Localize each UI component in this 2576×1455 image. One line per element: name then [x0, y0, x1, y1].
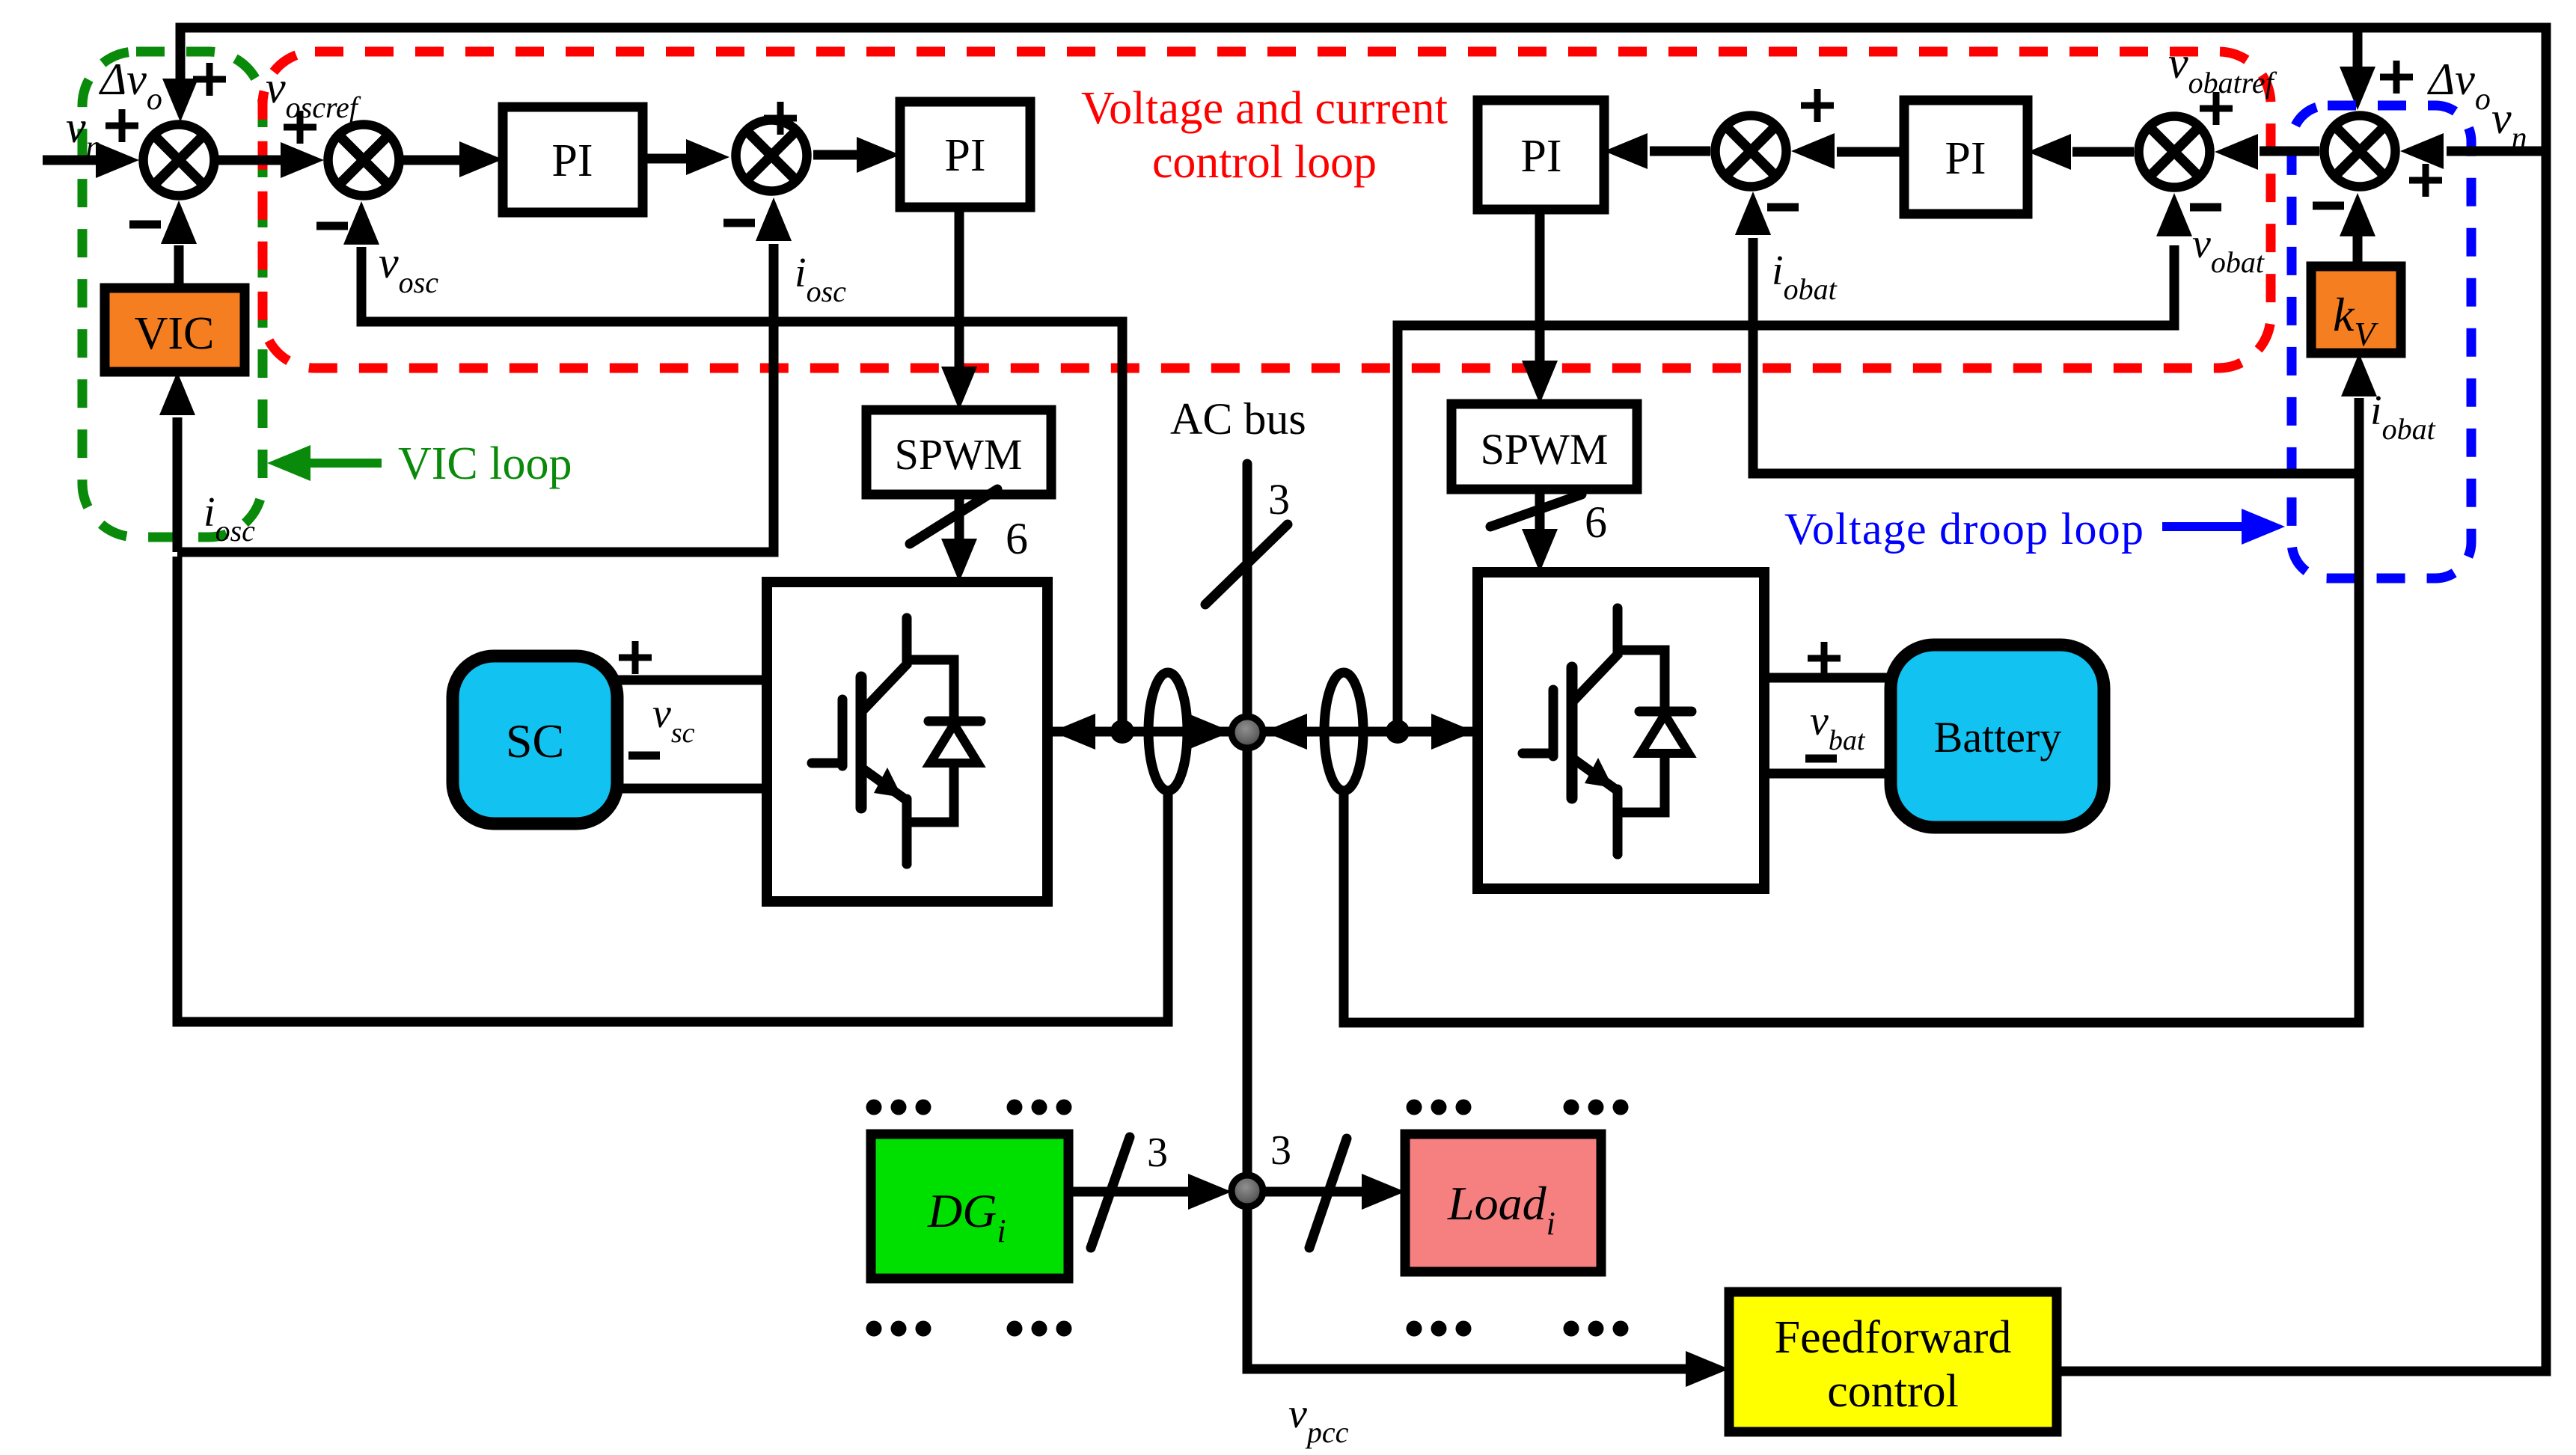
sum junction S3: [736, 120, 807, 192]
wire converter to battery positive: [1764, 673, 1891, 683]
svg-text:Voltage and current: Voltage and current: [1081, 83, 1448, 134]
diode D1 left: [930, 724, 978, 763]
arrow into SPWM1: [941, 367, 977, 410]
plus sign at sum S7 right input: [2409, 164, 2442, 197]
PI block U3: [1478, 100, 1604, 209]
arrow v_osc into sum S2 bottom: [343, 201, 379, 245]
minus sign at battery terminal: [1805, 755, 1837, 763]
minus sign at sum S7 bottom input: [2313, 202, 2344, 210]
wire SPWM2 to converter right: [1535, 489, 1545, 533]
wire branch from top border down to sum S5: [2353, 32, 2363, 72]
wire PI U3 down to SPWM2: [1535, 209, 1545, 366]
arrow i_osc into VIC bottom: [159, 372, 195, 415]
minus sign at sum S5b bottom input: [1767, 203, 1799, 212]
DG block: [871, 1134, 1068, 1278]
kV block: [2311, 266, 2401, 353]
svg-text:control loop: control loop: [1152, 137, 1377, 188]
wire i_obat branch to sum S5b: [1753, 238, 2359, 474]
wire bus to Load: [1263, 1187, 1368, 1197]
svg-text:PI: PI: [1945, 133, 1986, 184]
svg-text:control: control: [1827, 1366, 1959, 1417]
arrow into sum S2: [281, 142, 324, 178]
label plus delta v_o (right): [2380, 61, 2413, 94]
slash 3-wire AC bus: [1205, 524, 1288, 604]
svg-text:SPWM: SPWM: [1481, 425, 1609, 474]
svg-text:6: 6: [1585, 497, 1607, 547]
wire PI U1 to sum S3: [643, 154, 692, 164]
wire i_osc branch to sum S3: [177, 244, 774, 552]
minus sign at sum S1 bottom input: [129, 221, 161, 229]
arrow into PI U2: [857, 137, 900, 173]
wire VIC to sum S1: [174, 245, 184, 288]
arrow SPWM2 into converter right: [1522, 529, 1558, 572]
wire v_obat feedback: [1398, 245, 2174, 732]
wire i_osc feedback bottom run: [177, 557, 1168, 1022]
converter block right (battery converter): [1478, 572, 1764, 889]
node junction dot on battery converter output: [1386, 720, 1410, 744]
Load block: [1405, 1134, 1601, 1272]
svg-text:SC: SC: [506, 714, 564, 768]
node junction dot on SC converter output: [1110, 720, 1134, 744]
plus sign at battery terminal: [1808, 642, 1841, 675]
current sensor CT2 oval: [1324, 673, 1363, 791]
wire DG to bus: [1068, 1187, 1194, 1197]
wire sum S1 to sum S2: [218, 156, 288, 165]
arrow v_n into sum S1: [96, 142, 139, 178]
wire droop loop pointer: [2162, 522, 2243, 531]
slash 6-wire left: [910, 489, 997, 544]
wire sum S3 to PI block U2: [813, 150, 862, 160]
ellipsis dots around DG and Load: [866, 1100, 1629, 1337]
wire SC to converter negative: [617, 784, 767, 794]
arrow DG into bus ball: [1188, 1174, 1232, 1210]
wire sum S7 to sum S6: [2260, 147, 2319, 156]
voltage droop loop dashed blue box: [2292, 105, 2471, 578]
svg-text:AC bus: AC bus: [1170, 394, 1306, 444]
wire bus node to converter right: [1263, 727, 1478, 737]
arrow v_n into sum S7: [2400, 133, 2444, 169]
arrow from bus ball toward right: [1264, 714, 1307, 750]
slash 3-wire DG: [1091, 1137, 1130, 1248]
sum junction S5b: [1716, 116, 1787, 187]
svg-text:3: 3: [1147, 1130, 1168, 1176]
wire i_osc into VIC: [173, 417, 183, 552]
arrow i_obat into sum S5b bottom: [1735, 192, 1771, 235]
wire VIC loop pointer: [310, 459, 382, 468]
svg-text:PI: PI: [551, 135, 593, 186]
svg-text:SPWM: SPWM: [895, 430, 1023, 479]
plus sign at sum S1 top input: [193, 63, 226, 96]
arrow into sum S1 top: [162, 79, 198, 122]
node bus ball junction: [1232, 717, 1263, 748]
plus sign at sum S6 top input: [2200, 92, 2233, 125]
svg-text:Feedforward: Feedforward: [1775, 1312, 2012, 1363]
arrow into converter right input: [1431, 714, 1475, 750]
arrow into SPWM2: [1522, 361, 1558, 404]
plus sign at sum S1 left input: [105, 109, 138, 142]
slash 3-wire Load: [1309, 1139, 1347, 1248]
arrow into Load: [1362, 1174, 1405, 1210]
sum junction S1: [144, 125, 215, 196]
SPWM block right: [1451, 404, 1637, 489]
arrow toward bus ball from left: [1188, 714, 1232, 750]
wire SC to converter positive: [617, 676, 767, 685]
svg-text:PI: PI: [1520, 131, 1561, 182]
svg-text:6: 6: [1006, 514, 1028, 563]
node DG junction ball: [1232, 1175, 1263, 1207]
wire SPWM1 to converter: [955, 494, 964, 543]
converter block left (SC converter): [767, 582, 1047, 901]
node v_n input wire (left): [43, 156, 105, 165]
PI block U2: [900, 102, 1030, 207]
arrow into sum S5 top: [2340, 67, 2375, 110]
arrow v_pcc into feedforward: [1686, 1351, 1729, 1387]
wire AC bus vertical: [1247, 464, 1687, 1369]
sum junction S7 (droop sum): [2325, 116, 2396, 187]
voltage and current control loop dashed red box: [263, 52, 2271, 368]
svg-text:PI: PI: [944, 130, 985, 181]
arrow into sum S6: [2215, 134, 2258, 170]
PI block U4: [1904, 100, 2028, 214]
transistor Q1 IGBT left: [812, 618, 981, 864]
svg-text:VIC: VIC: [135, 308, 215, 359]
transistor Q2 IGBT right: [1523, 608, 1692, 854]
plus sign at sum S2 left input: [284, 111, 316, 144]
minus sign at sum S2 bottom input: [316, 222, 348, 230]
arrow v_obat into sum S6 bottom: [2156, 193, 2192, 236]
arrow kV output into sum S7 bottom: [2340, 193, 2375, 236]
wire converter to battery negative: [1764, 769, 1891, 779]
diode D2 right: [1641, 714, 1689, 753]
svg-text:3: 3: [1270, 1127, 1291, 1174]
arrow VIC output into sum S1 bottom: [161, 200, 197, 244]
wire sum S5b to PI U3: [1650, 147, 1710, 156]
VIC loop dashed green box: [82, 52, 263, 537]
wire kV to sum S7: [2353, 235, 2363, 266]
wire sum S2 to PI block U1: [403, 156, 468, 165]
arrow VIC loop pointer: [267, 445, 310, 481]
wire PI U2 down to SPWM1: [955, 207, 964, 372]
sum junction S2: [328, 125, 400, 196]
SPWM block left: [866, 410, 1051, 494]
current sensor CT1 oval: [1148, 673, 1187, 791]
arrow into PI U1: [459, 141, 503, 177]
svg-text:Voltage droop loop: Voltage droop loop: [1784, 504, 2144, 554]
plus sign at SC terminal: [619, 641, 652, 674]
arrow into sum S5b: [1791, 133, 1835, 169]
plus sign at sum S3 left input: [764, 102, 797, 135]
arrow i_osc into sum S3 bottom: [756, 197, 792, 241]
svg-text:3: 3: [1268, 475, 1290, 524]
arrow i_obat into kV: [2341, 353, 2377, 396]
wire PI U4 to sum S5b: [1837, 147, 1904, 157]
arrow droop loop pointer: [2242, 509, 2285, 545]
arrow into sum S3: [686, 139, 729, 175]
wire converter left to bus node: [1047, 727, 1232, 737]
svg-text:Battery: Battery: [1934, 713, 2062, 762]
minus sign at sum S6 bottom input: [2190, 203, 2221, 212]
arrow into PI U3: [1604, 133, 1648, 169]
sum junction S6: [2139, 117, 2210, 188]
arrow SPWM1 into converter: [941, 539, 977, 582]
SC block: [453, 656, 617, 824]
minus sign at SC terminal: [628, 752, 660, 760]
minus sign at sum S3 bottom input: [723, 219, 755, 227]
wire v_n input right: [2447, 147, 2542, 156]
Battery block: [1891, 645, 2104, 827]
PI block U1: [503, 107, 643, 212]
arrow into PI U4: [2028, 134, 2071, 170]
plus sign at sum S5b right input: [1801, 89, 1834, 122]
VIC block: [105, 288, 245, 372]
arrow into converter left output: [1052, 714, 1095, 750]
slash 6-wire right: [1490, 494, 1582, 527]
Feedforward control block: [1729, 1292, 2057, 1432]
wire v_osc feedback: [361, 247, 1122, 722]
svg-text:VIC loop: VIC loop: [398, 438, 572, 489]
wire i_obat feedback run: [1344, 398, 2359, 1023]
wire sum S6 to PI U4: [2072, 147, 2134, 157]
